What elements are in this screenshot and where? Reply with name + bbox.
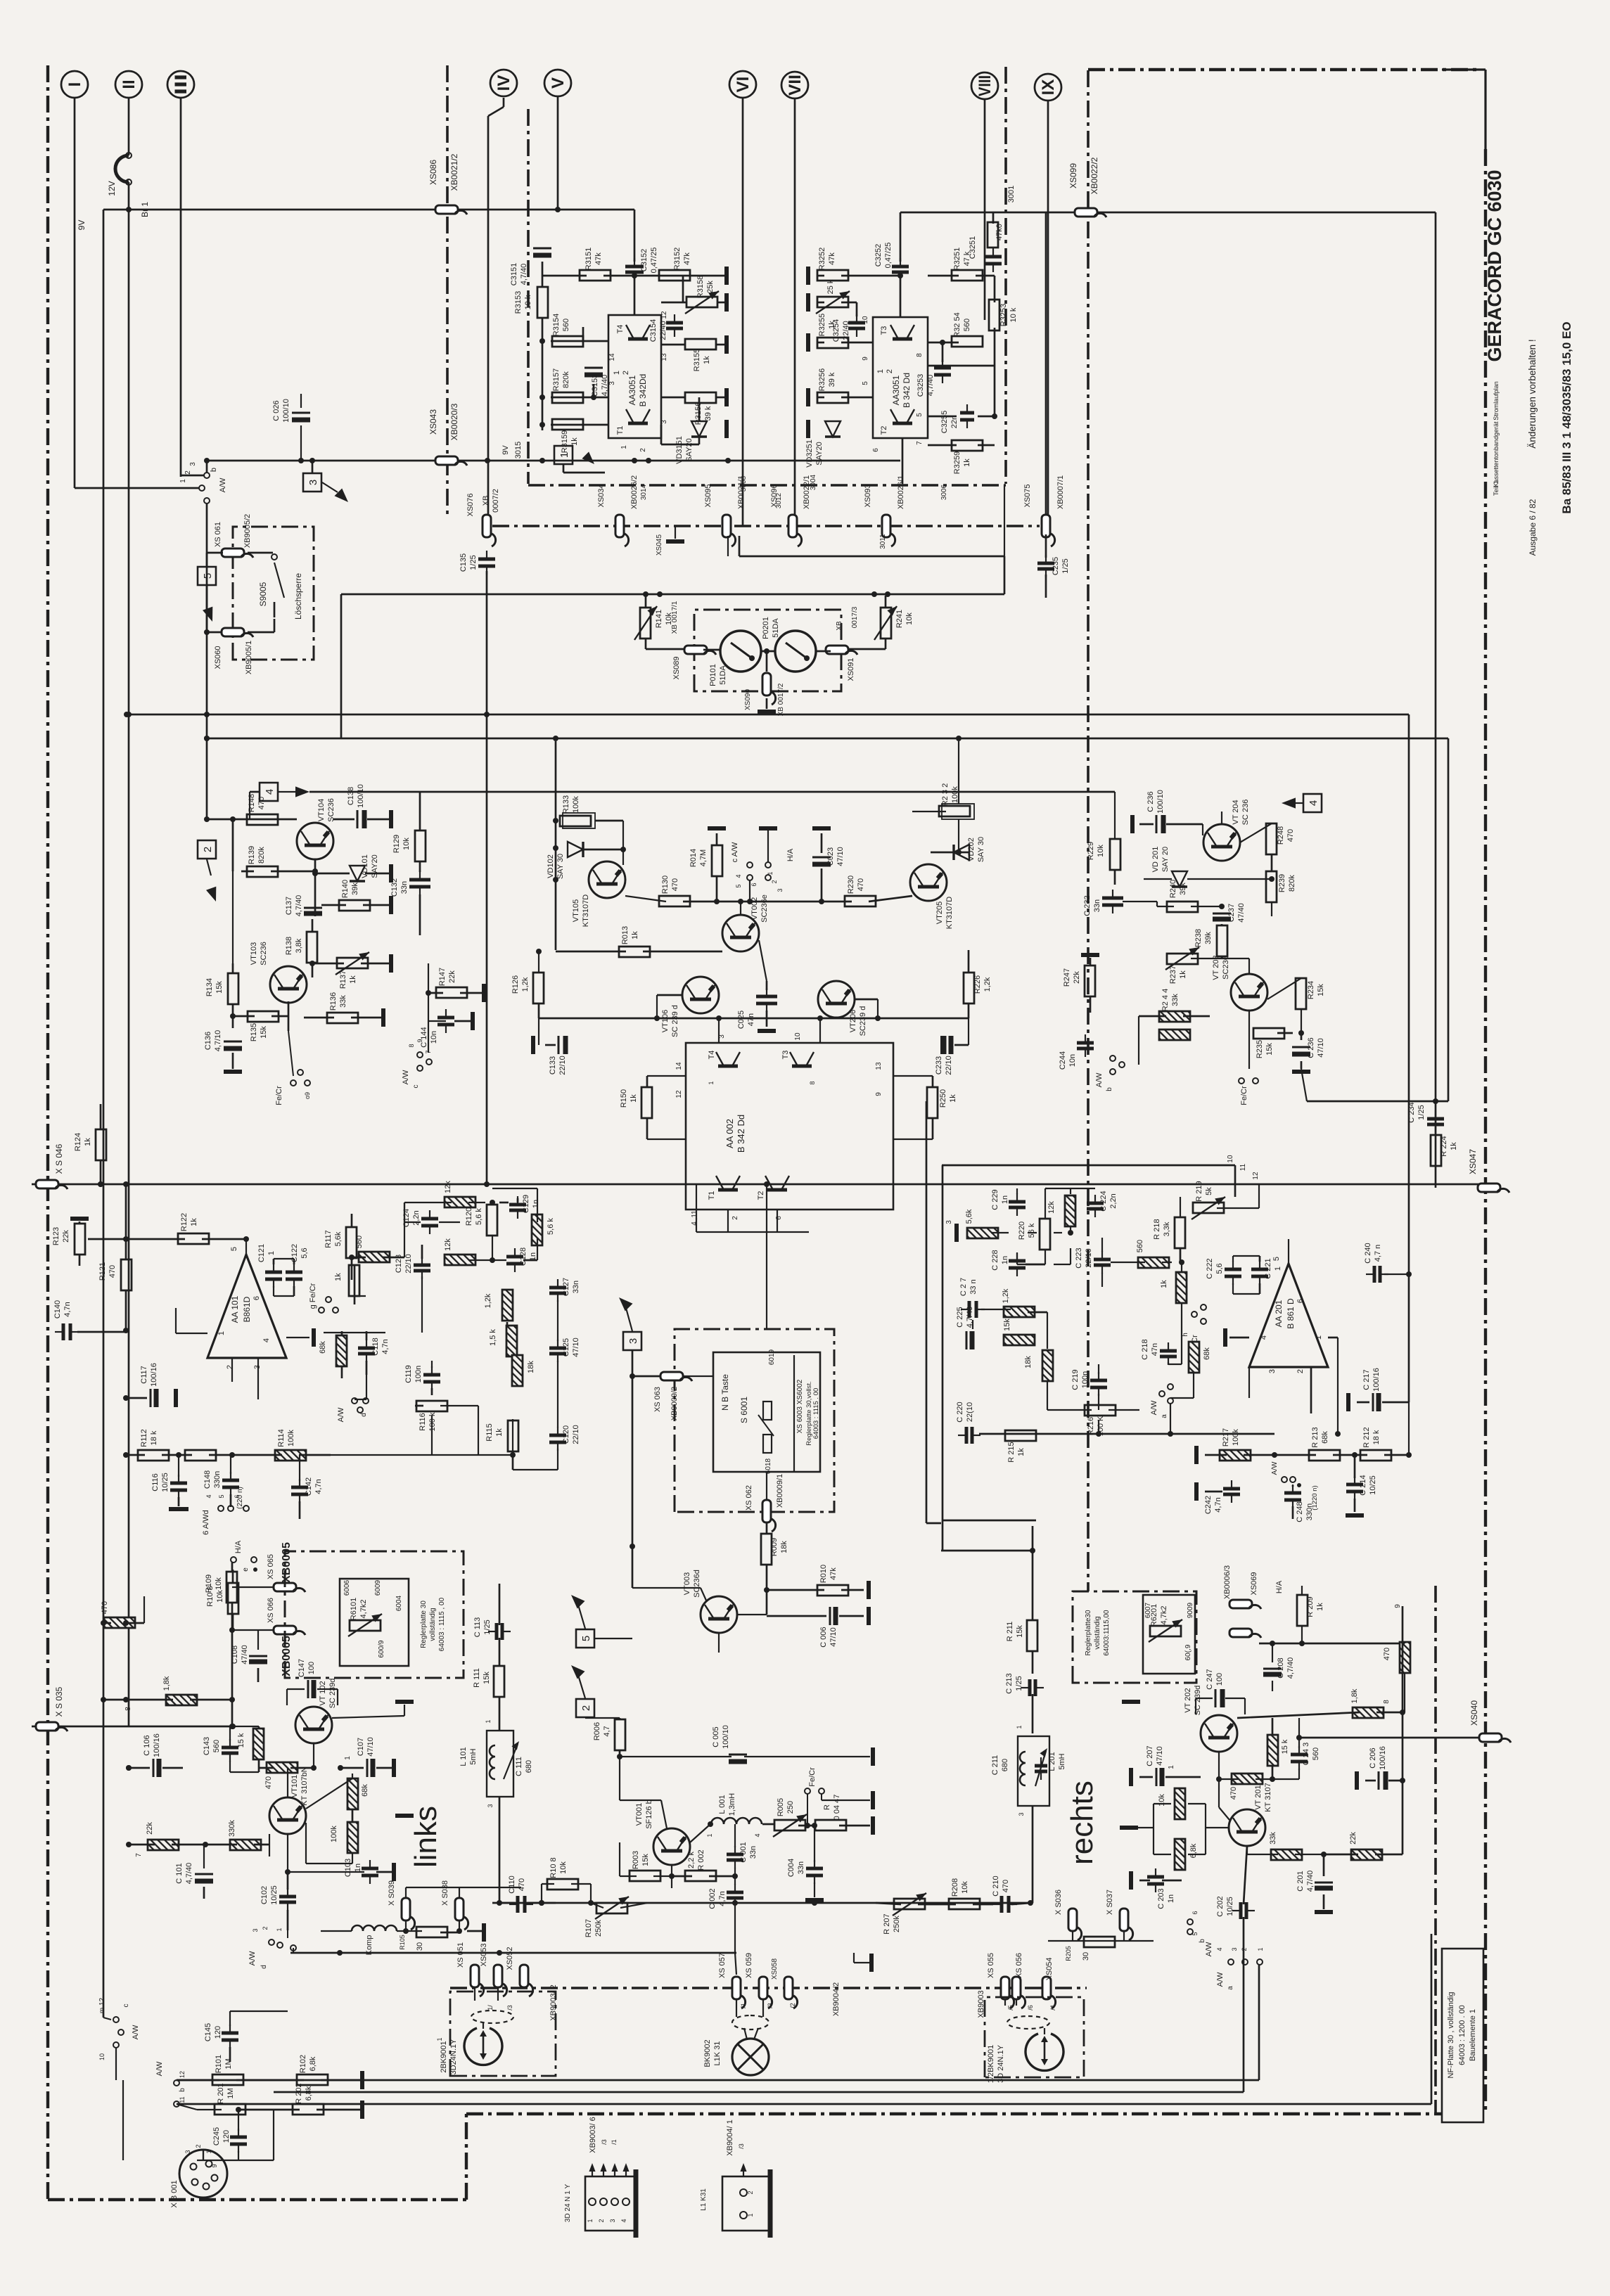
svg-text:R3251: R3251 [953, 248, 961, 270]
svg-text:4,7/40: 4,7/40 [295, 895, 303, 917]
svg-text:X S038: X S038 [441, 1880, 449, 1906]
resistor R213 [1309, 1450, 1340, 1461]
svg-text:XS 051: XS 051 [456, 1942, 465, 1968]
pill XS099 XB0022/2 [1075, 208, 1097, 217]
wire y1566 right [1307, 1101, 1448, 1103]
svg-text:56 k: 56 k [1028, 1223, 1036, 1238]
svg-text:C3254: C3254 [832, 319, 841, 342]
svg-text:C004: C004 [787, 1859, 796, 1877]
svg-text:Fe/Cr: Fe/Cr [808, 1767, 817, 1787]
resistor R013 [619, 947, 650, 957]
wire stem IX [1047, 101, 1049, 518]
svg-text:VD202: VD202 [967, 838, 976, 861]
wire y2455 from XS035 [32, 1726, 233, 1728]
svg-text:4: 4 [262, 1338, 271, 1342]
svg-text:10k: 10k [1097, 845, 1105, 857]
svg-text:47/10: 47/10 [829, 1627, 838, 1647]
svg-text:8: 8 [124, 1707, 132, 1711]
transistor T4b [716, 1052, 740, 1066]
resistor R212 [1360, 1450, 1391, 1461]
svg-text:XS075: XS075 [1023, 484, 1032, 507]
svg-text:100/10: 100/10 [357, 784, 365, 808]
svg-text:3004: 3004 [810, 474, 817, 490]
svg-text:1: 1 [620, 445, 628, 449]
transistor VT203 [1231, 974, 1267, 1011]
terminal IV [490, 70, 517, 96]
hatch 330k [230, 1840, 261, 1850]
A/W switch at I/III [75, 487, 199, 489]
resistor R235 [1253, 1028, 1284, 1039]
svg-text:XS 061: XS 061 [214, 522, 222, 547]
transistor T4 [626, 325, 650, 339]
diode VD202 [954, 845, 969, 860]
cap C108 [249, 1655, 267, 1657]
svg-text:6: 6 [750, 883, 758, 886]
cap C248 [1284, 1492, 1301, 1495]
svg-text:12k: 12k [1047, 1201, 1056, 1214]
svg-text:R150: R150 [620, 1089, 628, 1108]
svg-text:6019: 6019 [768, 1349, 776, 1365]
svg-text:C143: C143 [203, 1737, 211, 1755]
svg-text:39k: 39k [1179, 883, 1187, 895]
svg-text:XS043: XS043 [428, 409, 438, 435]
wire bottom bus y2777 [290, 1952, 736, 1954]
resistor R010 [817, 1585, 848, 1596]
pill XS063 [660, 1372, 683, 1380]
svg-text:R2 3 2: R2 3 2 [941, 783, 950, 806]
cap C233 [945, 1036, 947, 1054]
svg-text:R2 4 4: R2 4 4 [1161, 989, 1170, 1011]
pill XS075 [1042, 515, 1050, 537]
svg-text:C233: C233 [935, 1056, 943, 1075]
svg-text:VI: VI [734, 77, 753, 93]
svg-text:2: 2 [598, 2219, 605, 2222]
connector XB9004/1 [722, 2176, 770, 2231]
cap C201 [1315, 1882, 1333, 1884]
hatch 22k vt101 [148, 1840, 179, 1850]
hatch 68k [336, 1335, 347, 1366]
svg-text:C120: C120 [562, 1425, 570, 1444]
svg-text:XB0005: XB0005 [281, 1542, 293, 1583]
svg-text:T1: T1 [616, 426, 625, 435]
svg-text:VT002: VT002 [750, 897, 759, 920]
svg-text:15k: 15k [1003, 1319, 1011, 1331]
svg-text:C136: C136 [204, 1032, 212, 1050]
wire stem VI [742, 98, 744, 526]
svg-text:5mH: 5mH [1058, 1753, 1066, 1769]
wire x902 cap feed [634, 210, 636, 262]
ground XS045 [666, 539, 684, 544]
svg-text:e: e [242, 1567, 250, 1572]
L101 box [487, 1731, 513, 1797]
svg-text:4: 4 [264, 789, 276, 795]
FeCr contacts osc [805, 1788, 810, 1794]
svg-text:H/A: H/A [786, 848, 795, 861]
svg-text:33n: 33n [572, 1281, 580, 1293]
cap C023 [812, 857, 831, 859]
svg-text:R3159: R3159 [561, 430, 569, 453]
resistor R123 [75, 1224, 85, 1255]
svg-text:R105: R105 [399, 1935, 406, 1950]
wire x1487 to pill XB0007/1 [1045, 212, 1047, 518]
svg-text:22/10: 22/10 [572, 1425, 580, 1444]
svg-text:C 203: C 203 [1157, 1888, 1165, 1909]
transistor VT202 [1201, 1715, 1237, 1752]
svg-text:22(10: 22(10 [966, 1402, 974, 1422]
svg-text:1k: 1k [1316, 1603, 1324, 1611]
svg-text:100k: 100k [330, 1826, 338, 1842]
svg-text:100k: 100k [572, 796, 580, 813]
svg-text:Reglerplatte30: Reglerplatte30 [1085, 1610, 1092, 1655]
frame bottom dash-dot [466, 2112, 1442, 2115]
svg-text:3015: 3015 [514, 442, 523, 458]
meter feed wires [727, 536, 729, 556]
cap C116 [170, 1482, 187, 1485]
svg-text:3,8k: 3,8k [295, 938, 303, 953]
svg-text:6: 6 [775, 1216, 783, 1220]
svg-text:6006: 6006 [343, 1579, 351, 1596]
resistor 47k0 vert [988, 222, 998, 248]
hatch 15k vt102 [253, 1729, 264, 1759]
svg-text:VT 204: VT 204 [1232, 800, 1240, 824]
wire x1768 up [1243, 1964, 1245, 2092]
trimmer R237 [1167, 954, 1198, 964]
terminal IX [1035, 74, 1061, 101]
svg-text:KT3107D: KT3107D [582, 894, 590, 928]
cap C235 [1037, 562, 1054, 565]
pills XS036 XS037 [1068, 1909, 1077, 1931]
pill XS046 [36, 1180, 58, 1188]
svg-text:2: 2 [731, 1216, 739, 1220]
svg-text:10/25: 10/25 [270, 1885, 279, 1905]
reglerplatte-R outer box [1073, 1591, 1196, 1683]
left rail x790 [555, 741, 557, 950]
resistor R133 [560, 816, 591, 826]
svg-text:XB0009/2: XB0009/2 [670, 1387, 679, 1420]
pill XS058 [784, 1977, 793, 1999]
svg-text:47/10: 47/10 [836, 847, 845, 866]
svg-text:b: b [1106, 1087, 1113, 1091]
junction dots y2706 [539, 1900, 544, 1906]
svg-text:0,47/25: 0,47/25 [884, 243, 893, 269]
svg-text:10: 10 [1227, 1155, 1234, 1163]
cap C243 [1291, 1753, 1308, 1757]
resistor R3159 [552, 419, 583, 430]
aa201 box bottom [943, 1520, 1036, 1522]
svg-text:11: 11 [179, 2096, 186, 2103]
board bus dash-dot x636 [446, 65, 449, 518]
svg-text:VT106: VT106 [661, 1010, 670, 1032]
svg-text:C135: C135 [459, 553, 468, 572]
resistor R3254 [952, 336, 983, 347]
cap C206 [1378, 1771, 1380, 1790]
board bus dash-dot x751 [527, 109, 530, 484]
svg-text:SAY20: SAY20 [815, 442, 824, 465]
pill XS065 [274, 1583, 296, 1591]
svg-text:/3: /3 [506, 2005, 513, 2010]
cap C106 [153, 1759, 155, 1777]
svg-text:R115: R115 [485, 1423, 494, 1441]
svg-text:R3157: R3157 [552, 368, 561, 391]
caps C001 C002 [727, 1853, 743, 1856]
svg-text:18 k: 18 k [150, 1430, 158, 1445]
wire x2035 up [1431, 1934, 1433, 2104]
cap C147 [307, 1680, 309, 1698]
pill XS086 XB0021/2 [435, 205, 458, 214]
resistor R126 [533, 973, 544, 1003]
terminal VII [781, 72, 808, 98]
hatch 1,2k r [1004, 1307, 1035, 1317]
cap C122 [286, 1271, 302, 1274]
svg-text:C125: C125 [562, 1338, 570, 1357]
pill XS061 XB9005/2 [222, 549, 244, 557]
svg-text:R3259: R3259 [953, 451, 961, 474]
svg-text:R248: R248 [1277, 826, 1285, 845]
svg-text:22/10: 22/10 [558, 1056, 567, 1075]
XS040 wire [1299, 1737, 1301, 1739]
center box right edge [1004, 485, 1005, 556]
svg-text:5,6 k: 5,6 k [547, 1218, 555, 1235]
svg-text:1,3mH: 1,3mH [728, 1793, 736, 1816]
svg-text:R120: R120 [465, 1207, 473, 1226]
svg-text:m 12: m 12 [98, 1997, 106, 2013]
svg-text:R10 8: R10 8 [206, 1586, 215, 1606]
svg-text:R123: R123 [52, 1227, 60, 1245]
svg-text:15k: 15k [1265, 1043, 1274, 1056]
svg-text:R009: R009 [770, 1538, 779, 1556]
resistor R003 [630, 1871, 660, 1881]
svg-text:R3154: R3154 [552, 314, 561, 336]
svg-text:XB9004/ 1: XB9004/ 1 [726, 2119, 734, 2155]
svg-text:C133: C133 [549, 1056, 557, 1075]
opamp AA101 [207, 1255, 286, 1358]
Komp coil [352, 1925, 397, 1931]
svg-text:XS076: XS076 [466, 493, 475, 516]
svg-text:10/25: 10/25 [1369, 1475, 1377, 1495]
svg-text:10/25: 10/25 [1226, 1897, 1234, 1916]
frame right dash-dot border [1484, 149, 1487, 2114]
pill XS066 [274, 1626, 296, 1634]
lamp stems [736, 1999, 737, 2017]
svg-text:L 201: L 201 [1048, 1752, 1056, 1771]
A/Wd contacts [218, 1506, 224, 1511]
wire stem I [74, 98, 76, 488]
hatch 22k vt201 [1351, 1849, 1382, 1860]
cap C129 [509, 1203, 526, 1207]
svg-text:C 236: C 236 [1307, 1037, 1315, 1058]
svg-text:1k: 1k [703, 356, 711, 364]
resistor R215 [1005, 1430, 1036, 1441]
trimmer 25k [817, 297, 848, 307]
svg-text:0007/2: 0007/2 [492, 489, 500, 513]
svg-text:1: 1 [558, 452, 570, 458]
svg-text:XB0009/1: XB0009/1 [776, 1474, 784, 1508]
svg-text:XS 6003 XS6002: XS 6003 XS6002 [796, 1379, 804, 1433]
svg-text:2: 2 [1296, 1369, 1305, 1373]
svg-text:15k: 15k [483, 1672, 491, 1684]
svg-text:rechts: rechts [1065, 1781, 1099, 1865]
svg-text:C 106: C 106 [143, 1735, 151, 1755]
cap C121 [265, 1271, 282, 1274]
svg-text:470: 470 [1383, 1648, 1391, 1660]
cap C148 [222, 1479, 239, 1482]
cap C242 [1223, 1487, 1240, 1491]
svg-text:5mH: 5mH [469, 1748, 478, 1764]
svg-text:470: 470 [671, 878, 679, 891]
svg-text:4: 4 [754, 1833, 761, 1837]
junction dots misc [123, 1697, 129, 1702]
svg-text:SC239 d: SC239 d [859, 1006, 867, 1037]
cap C227 [968, 1301, 971, 1318]
left head box [450, 1992, 556, 2076]
svg-text:R 202: R 202 [295, 2083, 303, 2103]
long wire y2958 [177, 2079, 1259, 2082]
svg-text:22k: 22k [1349, 1832, 1357, 1845]
svg-text:22k: 22k [146, 1822, 154, 1835]
trimmer R219 [1193, 1202, 1224, 1213]
svg-text:3: 3 [627, 1338, 639, 1344]
pill XS091 [826, 646, 848, 654]
svg-text:C237: C237 [1227, 904, 1236, 922]
resistor R129 [415, 830, 426, 861]
resistor R014 [712, 845, 722, 876]
resistor R101 [212, 2074, 243, 2085]
wire bus y1016 [127, 714, 1409, 716]
module1 wiring [542, 262, 544, 287]
svg-text:6,8k: 6,8k [1189, 1843, 1198, 1858]
svg-text:47k: 47k [683, 252, 691, 265]
svg-text:100/16: 100/16 [153, 1733, 161, 1757]
svg-text:4,7/40: 4,7/40 [601, 375, 609, 397]
resistor R135 [248, 1011, 279, 1022]
svg-text:C 24 3: C 24 3 [1302, 1743, 1310, 1765]
svg-text:100/10: 100/10 [282, 399, 290, 423]
svg-text:3: 3 [307, 480, 319, 485]
wire x330 regler feed [231, 1630, 234, 1726]
svg-text:33k: 33k [339, 995, 347, 1008]
svg-text:68k: 68k [1321, 1431, 1329, 1444]
svg-text:3: 3 [252, 1928, 259, 1932]
svg-text:60(,9: 60(,9 [1184, 1644, 1192, 1660]
svg-text:1: 1 [708, 1081, 715, 1084]
cap C240 [1373, 1266, 1376, 1283]
pill XS090 [762, 673, 771, 695]
svg-text:12: 12 [660, 311, 668, 319]
wire y1165 [207, 819, 297, 821]
pills XB0006/3 XS069 [1229, 1600, 1252, 1608]
svg-text:5,6k: 5,6k [965, 1209, 973, 1224]
svg-text:22k: 22k [1073, 971, 1081, 984]
svg-text:/6: /6 [1027, 2005, 1034, 2010]
hatch 1,5k [506, 1326, 517, 1357]
svg-text:R 218: R 218 [1153, 1219, 1161, 1239]
svg-text:R6101: R6101 [350, 1598, 358, 1620]
wire x1428 [1004, 556, 1006, 594]
svg-text:10k: 10k [216, 1590, 224, 1603]
diode VD101 [350, 866, 365, 881]
svg-text:d: d [260, 1965, 268, 1969]
svg-text:3: 3 [608, 381, 616, 385]
hatch 560 r [1138, 1257, 1169, 1268]
svg-text:Komp: Komp [365, 1935, 373, 1956]
IC box AA3051 left [608, 315, 661, 438]
svg-text:33k: 33k [1171, 994, 1180, 1006]
svg-text:SAY20: SAY20 [685, 438, 694, 461]
cap C236b [1292, 1046, 1310, 1048]
svg-text:VT104: VT104 [317, 799, 326, 821]
cap C228 [1009, 1259, 1026, 1263]
resistor R150 [641, 1087, 652, 1118]
cap C247 [1215, 1689, 1217, 1707]
svg-text:A/W: A/W [219, 477, 227, 492]
svg-text:I: I [65, 82, 84, 87]
svg-text:XB0007/1: XB0007/1 [1056, 475, 1065, 509]
svg-text:15k: 15k [1016, 1625, 1024, 1638]
svg-text:C145: C145 [204, 2023, 212, 2041]
svg-text:SF126 b: SF126 b [645, 1800, 653, 1829]
resistor R108c [547, 1879, 578, 1890]
svg-text:C 101: C 101 [175, 1863, 184, 1883]
terminal I [61, 71, 88, 98]
svg-text:R3158: R3158 [696, 276, 705, 298]
trimmer R3158 [686, 297, 717, 307]
FeCr contacts right [1239, 1078, 1244, 1084]
svg-text:6: 6 [234, 1494, 241, 1498]
hatch 68k vt101 [347, 1778, 358, 1809]
svg-text:100k: 100k [287, 1430, 295, 1447]
wire x1051 from pill [739, 536, 741, 556]
resistor R239 [1266, 871, 1277, 902]
svg-text:XB 0017/2: XB 0017/2 [777, 683, 785, 716]
svg-text:SC 236: SC 236 [1241, 800, 1250, 826]
left head [464, 2028, 502, 2065]
svg-text:C 224: C 224 [1099, 1191, 1108, 1211]
junction dots bus y1684 [98, 1181, 103, 1187]
svg-text:820k: 820k [1288, 875, 1296, 892]
resistor R3155 [685, 339, 716, 349]
wire x1994 [1402, 1606, 1404, 1854]
svg-text:8: 8 [809, 1081, 816, 1084]
AA101 mesh extra wires [331, 1454, 513, 1456]
svg-text:33n: 33n [797, 1861, 805, 1874]
svg-text:R229: R229 [1087, 842, 1095, 860]
svg-text:1,2k: 1,2k [484, 1293, 492, 1308]
svg-text:GERACORD GC 6030: GERACORD GC 6030 [1484, 169, 1505, 361]
cap C221 [1251, 1268, 1268, 1271]
svg-text:22/10: 22/10 [404, 1254, 413, 1274]
svg-text:VT101: VT101 [290, 1775, 299, 1797]
svg-text:25k: 25k [706, 281, 715, 293]
svg-text:NF-Platte 30 , vollständig: NF-Platte 30 , vollständig [1447, 1992, 1455, 2079]
svg-text:5: 5 [916, 413, 924, 417]
svg-text:R006: R006 [593, 1722, 601, 1740]
svg-text:3014: 3014 [640, 484, 648, 500]
svg-text:C 247: C 247 [1206, 1669, 1214, 1689]
svg-text:18 k: 18 k [1372, 1430, 1381, 1444]
hatch 5,6k [532, 1214, 542, 1245]
svg-text:6: 6 [1191, 1911, 1199, 1914]
svg-text:C118: C118 [371, 1338, 380, 1355]
svg-text:C 202: C 202 [1216, 1896, 1225, 1916]
diode VD201 [1172, 871, 1187, 887]
cap C232 [1102, 897, 1123, 900]
aa201 box top [942, 1165, 1235, 1167]
svg-text:R247: R247 [1063, 968, 1071, 987]
svg-text:1,8k: 1,8k [162, 1676, 171, 1691]
svg-text:A/W: A/W [1205, 1942, 1213, 1956]
svg-text:0,47/25: 0,47/25 [650, 248, 658, 274]
svg-text:100: 100 [1215, 1673, 1224, 1686]
